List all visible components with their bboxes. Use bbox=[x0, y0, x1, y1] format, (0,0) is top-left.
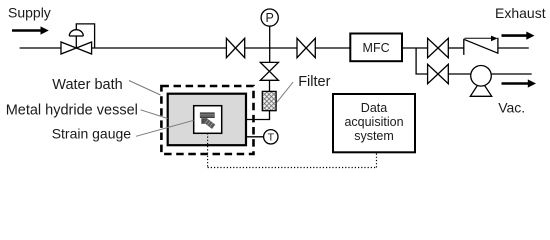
vacuum pump bbox=[470, 66, 491, 97]
wire V5 to filter bbox=[269, 80, 271, 91]
wire vessel to T sensor bbox=[246, 136, 264, 138]
back-pressure relief device bbox=[464, 38, 498, 55]
svg-text:Vac.: Vac. bbox=[498, 100, 525, 116]
wire V2 to MFC bbox=[315, 47, 350, 49]
node junction to P branch bbox=[269, 26, 271, 62]
svg-text:Filter: Filter bbox=[298, 74, 330, 90]
node branch tee bbox=[416, 48, 428, 74]
wire filter to vessel bbox=[246, 111, 270, 120]
valve V1 bbox=[226, 38, 244, 57]
wire regulator to valve V1 bbox=[92, 47, 227, 49]
label pointer strain gauge bbox=[136, 120, 194, 136]
valve V4 (vacuum branch) bbox=[428, 64, 449, 83]
data acquisition system box bbox=[333, 94, 415, 152]
filter F bbox=[262, 91, 276, 110]
svg-text:acquisition: acquisition bbox=[344, 115, 403, 129]
svg-text:P: P bbox=[266, 11, 274, 25]
exhaust flow arrow bbox=[502, 32, 535, 40]
svg-text:Data: Data bbox=[361, 101, 387, 115]
svg-text:Exhaust: Exhaust bbox=[495, 5, 546, 21]
valve V3 (exhaust branch) bbox=[428, 38, 449, 57]
svg-text:system: system bbox=[354, 129, 394, 143]
valve V5 (vertical, to vessel) bbox=[260, 62, 278, 80]
wire main line: inlet to regulator bbox=[20, 47, 61, 49]
svg-text:Metal hydride vessel: Metal hydride vessel bbox=[6, 102, 138, 118]
pressure regulator PR (valve body) bbox=[61, 24, 95, 54]
temperature sensor T bbox=[264, 130, 278, 144]
svg-text:Strain gauge: Strain gauge bbox=[52, 126, 132, 142]
water bath (dashed) bbox=[161, 86, 253, 154]
metal hydride vessel bbox=[168, 94, 246, 146]
signal wire strain gauge to DAQ (dotted) bbox=[208, 133, 377, 167]
MFC box U1 bbox=[350, 34, 402, 62]
svg-text:Water bath: Water bath bbox=[52, 77, 122, 93]
label pointer Filter bbox=[277, 82, 293, 102]
svg-text:T: T bbox=[268, 132, 275, 144]
wire MFC to branch and top valve bbox=[402, 47, 428, 49]
svg-text:MFC: MFC bbox=[363, 41, 390, 55]
wire pump to vac bbox=[491, 73, 531, 75]
vacuum flow arrow bbox=[502, 79, 537, 87]
supply flow arrow bbox=[12, 26, 49, 34]
label pointer water bath bbox=[129, 81, 161, 96]
wire relief to exhaust bbox=[498, 47, 529, 49]
strain gauge box bbox=[194, 106, 222, 134]
wire V4 to pump bbox=[448, 73, 471, 75]
svg-text:Supply: Supply bbox=[8, 5, 51, 21]
pressure gauge P bbox=[261, 9, 278, 26]
strain gauge icon bbox=[200, 112, 215, 129]
label pointer vessel bbox=[141, 110, 168, 119]
valve V2 bbox=[297, 38, 315, 57]
wire V3 to relief device bbox=[448, 47, 464, 49]
wire V1 to V2 through junction bbox=[245, 47, 297, 49]
